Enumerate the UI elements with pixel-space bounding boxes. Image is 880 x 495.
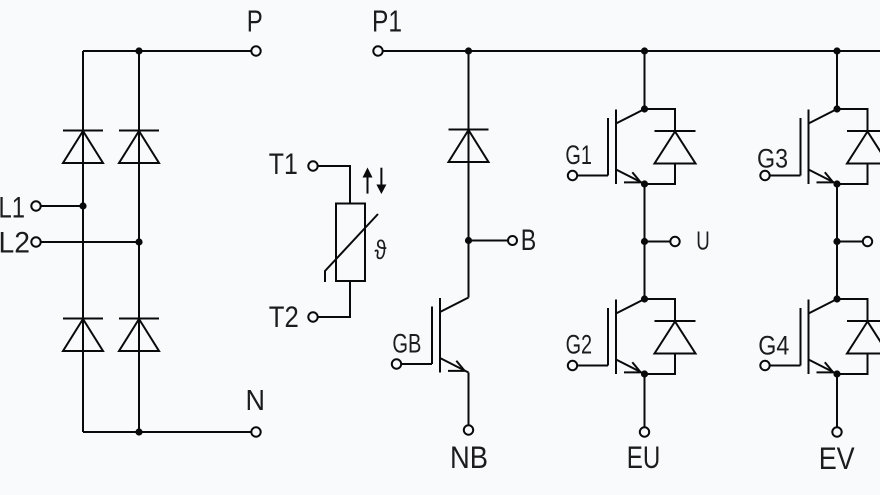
svg-text:T1: T1 [269, 148, 298, 181]
svg-text:G2: G2 [566, 330, 593, 360]
svg-text:G4: G4 [758, 331, 789, 361]
svg-text:P1: P1 [372, 4, 402, 39]
svg-text:P: P [247, 4, 263, 39]
svg-text:L1: L1 [0, 192, 25, 225]
svg-text:EU: EU [627, 439, 661, 475]
svg-text:ϑ: ϑ [375, 235, 387, 265]
svg-text:U: U [696, 227, 710, 255]
svg-text:N: N [246, 385, 266, 417]
svg-text:NB: NB [450, 439, 488, 475]
svg-text:EV: EV [819, 440, 855, 476]
svg-text:L2: L2 [0, 226, 30, 259]
svg-text:G3: G3 [757, 143, 788, 173]
svg-text:G1: G1 [565, 140, 592, 170]
svg-text:T2: T2 [269, 301, 299, 334]
svg-text:GB: GB [392, 329, 421, 359]
svg-text:B: B [521, 224, 537, 257]
